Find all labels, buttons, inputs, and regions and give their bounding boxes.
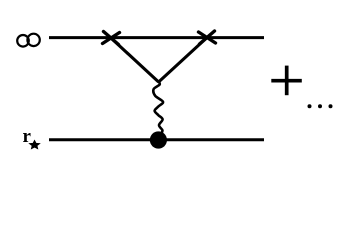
wire: right diagonal fermion line — [159, 38, 207, 83]
photon propagator: wavy line — [153, 82, 163, 134]
plus sign — [271, 66, 302, 96]
wire: top heavy-quark propagator line — [49, 36, 264, 39]
label star subscript — [29, 140, 39, 148]
ellipsis dots — [308, 104, 333, 108]
wire: left diagonal fermion line — [111, 38, 159, 82]
vertex: filled dot on bottom line — [150, 131, 167, 148]
infinity symbol (heavy-quark line label) — [17, 34, 40, 47]
node: left mass-insertion cross X1 — [103, 32, 120, 45]
node: right mass-insertion cross X2 — [199, 31, 216, 44]
wire: bottom light-quark propagator line — [49, 138, 264, 141]
